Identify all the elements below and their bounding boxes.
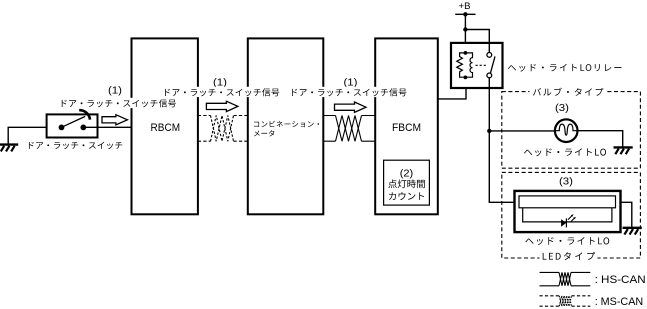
ground G2 (LED) (623, 228, 642, 235)
MS-CAN bus between RBCM and combination meter (198, 116, 248, 142)
legend MS-CAN symbol (540, 296, 591, 306)
combination meter box (248, 38, 323, 214)
signal arrow #3 (335, 102, 367, 112)
svg-text:+B: +B (459, 1, 471, 12)
headlight bulb lamp (555, 119, 578, 142)
wire: relay switch down to lamp/LED junction (489, 88, 514, 202)
LED diode symbol (561, 219, 566, 227)
junction node (487, 129, 491, 133)
relay box (headlight LO relay) (451, 43, 503, 88)
svg-text:(3): (3) (559, 176, 573, 187)
FBCM inner box: lighting time count (384, 160, 430, 205)
white backing + label: door latch switch signal #3 (291, 87, 407, 97)
svg-text:RBCM: RBCM (151, 122, 181, 134)
label: LED type on dashed border (540, 250, 598, 261)
relay coil branch: resistor + coil in parallel (464, 51, 468, 55)
signal arrow #2 (206, 101, 238, 111)
svg-text:(1): (1) (108, 85, 122, 96)
wire: switch ground riser and feed to switch box (8, 127, 61, 144)
wire: +B down with branch to relay switch (464, 14, 466, 53)
FBCM box (375, 38, 438, 214)
dashed mechanical link coil to switch (476, 64, 486, 66)
LED headlight unit outer case (515, 191, 621, 232)
HS-CAN bus between meter and FBCM (323, 116, 375, 142)
switch actuator arc (79, 110, 90, 119)
label: headlight LO (LED) (525, 237, 609, 245)
ground G1 (bulb) (614, 147, 633, 154)
svg-text:FBCM: FBCM (392, 122, 421, 134)
LED unit lower chamber (523, 208, 612, 222)
wire to bulb (489, 130, 555, 132)
wire: FBCM to relay coil (438, 89, 466, 99)
white backing + label: door latch switch signal #1 (61, 98, 178, 108)
wire LED to ground (621, 202, 632, 227)
svg-text:(3): (3) (555, 103, 569, 114)
label: headlight LO relay (508, 64, 622, 72)
bulb-type dashed box (502, 92, 641, 169)
relay switch contacts (488, 44, 490, 89)
switch box (door latch switch) (47, 114, 98, 137)
ground G0 (door latch switch) (0, 145, 18, 152)
svg-text:: MS-CAN: : MS-CAN (595, 296, 644, 308)
LED-type dashed box (502, 172, 641, 258)
wire bulb to ground (577, 131, 622, 147)
svg-text:: HS-CAN: : HS-CAN (595, 274, 646, 286)
switch contacts and blade (59, 125, 65, 131)
LED unit upper chamber (519, 196, 616, 208)
RBCM box (132, 38, 198, 214)
signal arrow #1 (102, 115, 127, 125)
svg-text:(2): (2) (400, 168, 414, 179)
label: door latch switch (29, 142, 122, 149)
legend HS-CAN symbol (540, 272, 591, 285)
label: headlight LO (bulb) (524, 148, 606, 156)
white backing + label: door latch switch signal #2 (164, 87, 280, 97)
wire: switch to RBCM (83, 126, 131, 128)
